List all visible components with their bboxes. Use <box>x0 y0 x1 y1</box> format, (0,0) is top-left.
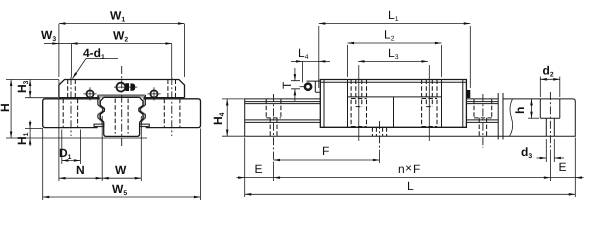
base hole left D1 (dashed) <box>63 99 77 128</box>
carriage block outline <box>59 80 185 98</box>
svg-text:F: F <box>322 144 329 158</box>
dimension F <box>274 144 380 160</box>
end cap screw right <box>147 87 160 100</box>
grease nipple front <box>114 83 137 92</box>
rail left segment <box>245 99 321 136</box>
svg-text:N: N <box>76 163 85 177</box>
block inner profile line <box>98 95 146 124</box>
dimension T <box>280 68 300 101</box>
section counterbore hole <box>540 99 560 136</box>
svg-text:F: F <box>413 162 420 176</box>
svg-text:E: E <box>559 160 567 174</box>
dimension H <box>0 80 147 139</box>
svg-text:n: n <box>398 162 405 176</box>
svg-text:W: W <box>115 163 127 177</box>
4-d1 hole left (dashed) <box>68 80 76 98</box>
hole centerline / W2 extension right <box>171 44 173 77</box>
dimension W5 <box>43 129 201 201</box>
thread hole centerlines / L3 extensions <box>359 65 430 141</box>
dimension E right <box>550 92 583 181</box>
svg-text:E: E <box>255 162 263 176</box>
svg-text:H: H <box>0 103 12 112</box>
dimension H4 <box>211 99 245 136</box>
thread hole left (dashed) <box>351 80 366 127</box>
block side view <box>320 80 466 128</box>
dimension D1 <box>59 130 80 165</box>
rail hole 1 dashed counterbore <box>266 99 281 136</box>
dimension H3 <box>15 80 58 98</box>
wavy section boundary <box>510 99 513 136</box>
rail profile <box>100 97 143 136</box>
rail hole 2 centerline <box>379 121 381 150</box>
dimension h <box>513 99 539 118</box>
rail hole 1 centerline <box>273 94 275 164</box>
rail hole 3 centerline <box>482 94 484 148</box>
block inner cavity ceiling <box>98 95 146 97</box>
base hole right (dashed) <box>164 99 180 128</box>
dimension E left <box>237 138 274 198</box>
break lines <box>498 93 503 140</box>
base plate <box>43 99 201 128</box>
dimension L2 <box>348 28 442 78</box>
svg-text:h: h <box>513 107 527 114</box>
rail / nipple centerline <box>121 66 123 146</box>
rail right segment to break <box>466 99 498 123</box>
block center joint line <box>393 97 395 127</box>
grease nipple side <box>300 81 321 92</box>
svg-text:×: × <box>405 161 412 175</box>
dimension W1 <box>59 9 185 78</box>
dimension d2 <box>540 64 560 98</box>
dimension W2 / W3 <box>41 28 172 44</box>
svg-text:L: L <box>407 179 414 193</box>
dimension d3 <box>521 139 564 162</box>
dimension L1 <box>319 8 471 88</box>
rail bottom full <box>245 135 576 137</box>
4-d1 hole right (dashed) <box>168 80 176 98</box>
end cap screw left <box>83 87 96 100</box>
side protrusion right <box>467 90 470 98</box>
thread hole right (dashed) <box>422 80 437 127</box>
rail bottom side bars <box>94 124 104 127</box>
dimension L <box>245 138 576 198</box>
dimension N and W <box>59 80 141 181</box>
rail hole 2 under block (dashed) <box>372 127 386 136</box>
rail bolt hole (dashed) <box>115 99 128 134</box>
note 4-d1 with leader <box>73 46 119 79</box>
rail sectioned right part <box>503 99 575 137</box>
hole centerline / W2 extension left <box>71 44 73 77</box>
dimension H1 <box>15 121 43 147</box>
gray gap band around rail head <box>99 96 144 121</box>
dimension nxF <box>274 161 551 178</box>
dimension L4 <box>291 46 330 83</box>
svg-text:T: T <box>280 81 294 89</box>
rail hole 3 dashed counterbore <box>474 99 492 136</box>
dimension L3 <box>358 46 428 61</box>
